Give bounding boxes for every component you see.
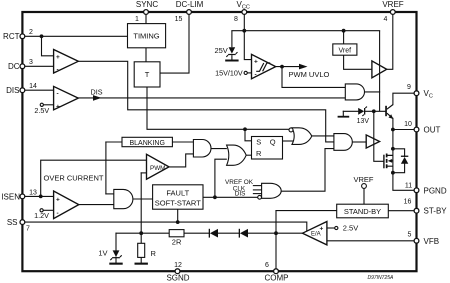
- wire AND3 output to AND2 bottom input: [281, 149, 334, 192]
- wire DIS net long line: [78, 97, 345, 99]
- svg-text:2: 2: [29, 29, 33, 36]
- svg-text:13: 13: [29, 189, 37, 196]
- wire Vcc rail: [232, 30, 380, 32]
- svg-text:8: 8: [234, 16, 238, 23]
- svg-text:-: -: [255, 71, 257, 78]
- pin 11 PGND: [414, 188, 419, 193]
- wire body diode branch bottom: [393, 164, 405, 173]
- wire Vcc pin drop: [243, 12, 245, 31]
- pin 12 SGND: [175, 269, 180, 274]
- pin 7 SS: [20, 220, 25, 225]
- svg-text:COMP: COMP: [265, 273, 289, 282]
- node 1.2V bubble at ISEN comparator: [40, 209, 43, 212]
- wire Vcc rail drop through buffer to base line: [379, 31, 381, 112]
- wire emitter drop: [392, 118, 394, 129]
- wire 2.5V stub to E/A: [327, 227, 335, 229]
- wire STAND-BY top to VREF bubble: [363, 188, 365, 204]
- wire SYNC drop: [145, 12, 147, 24]
- svg-text:1.2V: 1.2V: [34, 211, 49, 220]
- svg-text:DC: DC: [8, 62, 20, 71]
- wire 15V/10V stub to UVLO - input: [248, 72, 252, 74]
- wire overcurrent AND output to FAULT block: [133, 198, 153, 200]
- svg-text:15: 15: [175, 16, 183, 23]
- wire output rail to PGND: [393, 130, 417, 191]
- wire Vref box top: [343, 31, 345, 44]
- svg-text:16: 16: [404, 199, 412, 206]
- gate AND2 3-input: [334, 134, 352, 151]
- pin 10 OUT: [414, 127, 419, 132]
- svg-text:SOFT-START: SOFT-START: [155, 199, 201, 208]
- svg-text:PGND: PGND: [424, 186, 447, 195]
- svg-text:BLANKING: BLANKING: [129, 140, 164, 147]
- wire UVLO AND output: [365, 91, 380, 93]
- svg-text:7: 7: [26, 225, 30, 232]
- comparator DC (RCT/DC): [54, 50, 79, 74]
- svg-text:1: 1: [135, 16, 139, 23]
- wire RCT to TIMING: [23, 35, 128, 37]
- svg-text:-: -: [320, 239, 322, 246]
- comparator PWM: [147, 154, 170, 179]
- error amplifier E/A: [303, 222, 327, 245]
- diode D2: [239, 229, 240, 238]
- svg-text:DIS: DIS: [91, 88, 103, 97]
- svg-text:2.5V: 2.5V: [343, 224, 358, 233]
- svg-text:OVER CURRENT: OVER CURRENT: [44, 174, 104, 183]
- svg-text:11: 11: [405, 183, 412, 190]
- wire R resistor connections: [140, 233, 142, 243]
- wire 1V zener drop: [115, 233, 117, 250]
- svg-text:3: 3: [29, 59, 33, 66]
- svg-text:OUT: OUT: [424, 126, 441, 135]
- svg-text:PWM UVLO: PWM UVLO: [289, 70, 330, 79]
- wire SS line: [23, 222, 307, 233]
- svg-text:12: 12: [174, 262, 182, 269]
- ground R resistor: [135, 263, 148, 265]
- wire TIMING to T: [145, 48, 147, 62]
- svg-text:6: 6: [265, 262, 269, 269]
- wire 13V zener to ground: [343, 110, 358, 112]
- svg-text:VREF: VREF: [382, 0, 403, 9]
- node VREF bubble above STAND-BY: [362, 184, 367, 189]
- driver triangle for output stage: [366, 135, 379, 148]
- wire Vc pin to collector: [393, 93, 417, 104]
- gate AND overcurrent: [114, 189, 133, 208]
- wire FAULT output to AND3 DIS input: [203, 196, 258, 198]
- ground 13V zener: [338, 116, 350, 118]
- bubble OR3 inverted input: [289, 128, 293, 132]
- arrow DIS net: [93, 95, 102, 101]
- wire body diode branch top: [393, 149, 405, 157]
- svg-text:R: R: [256, 149, 262, 158]
- svg-text:VFB: VFB: [424, 237, 440, 246]
- pin 1 SYNC: [144, 10, 149, 15]
- junction dots: [40, 34, 44, 38]
- svg-text:1V: 1V: [98, 249, 107, 258]
- svg-text:-: -: [57, 210, 59, 217]
- svg-text:T: T: [145, 70, 150, 79]
- pin 9 Vc: [414, 91, 419, 96]
- wire AND2 output to driver: [353, 141, 367, 143]
- wire 1.2V stub: [43, 209, 53, 211]
- wire RCT branch to DC comparator + input: [42, 36, 54, 56]
- wire latch Q output to OR3: [283, 140, 295, 142]
- svg-text:+: +: [254, 59, 258, 66]
- wire BLANKING output to AND1: [172, 141, 193, 143]
- transistor M1 mosfet: [383, 155, 384, 169]
- svg-text:25V: 25V: [214, 46, 227, 55]
- diode body MOSFET: [401, 157, 408, 164]
- svg-text:D97IN725A: D97IN725A: [368, 275, 395, 281]
- svg-text:PWM: PWM: [150, 165, 165, 172]
- pin 3 DC: [20, 64, 25, 69]
- wire OR2 output to latch R: [245, 154, 252, 156]
- svg-text:ISEN: ISEN: [1, 192, 20, 201]
- block STAND-BY: [337, 204, 389, 218]
- wire AND1 output to OR2: [211, 148, 226, 150]
- resistor 2R: [169, 230, 184, 237]
- pin 5 VFB: [414, 238, 419, 243]
- block Vref: [333, 44, 357, 55]
- wire AND3 input stub VREF OK: [253, 185, 261, 187]
- gate OR2 to latch R: [227, 145, 247, 165]
- svg-text:SYNC: SYNC: [136, 0, 158, 9]
- wire E/A output line: [116, 232, 169, 234]
- zener 1V: [113, 250, 120, 257]
- node 15V/10V bubble at UVLO: [244, 71, 247, 74]
- wire FAULT branch to OR2: [215, 159, 226, 197]
- wire Vcc to UVLO + input: [244, 31, 251, 60]
- pin 6 COMP: [274, 269, 279, 274]
- svg-text:+: +: [56, 197, 60, 204]
- wire UVLO output with arrow: [276, 66, 300, 68]
- wire STAND-BY to ST-BY pin: [388, 210, 416, 212]
- svg-text:Q: Q: [270, 137, 276, 146]
- wire BLANKING input from overcurrent AND: [106, 193, 114, 195]
- comparator UVLO with hysteresis: [252, 54, 276, 78]
- block BLANKING: [122, 137, 172, 146]
- svg-text:4: 4: [384, 16, 388, 23]
- wire DIS pin to comparator: [23, 89, 54, 91]
- wire T clock output to OR3 bubble: [147, 87, 289, 129]
- wire VFB pin to E/A inverting input: [327, 240, 417, 242]
- svg-text:DC-LIM: DC-LIM: [176, 0, 204, 9]
- svg-text:14: 14: [29, 83, 37, 90]
- block TIMING: [128, 24, 166, 48]
- latch SR flip-flop: [252, 137, 283, 160]
- svg-text:Vref: Vref: [339, 47, 352, 54]
- arrow PWM UVLO: [299, 64, 308, 70]
- wire ISEN comparator output: [79, 204, 114, 206]
- svg-text:2R: 2R: [172, 238, 182, 247]
- svg-text:-: -: [57, 67, 59, 74]
- buffer Vref to pin 4: [372, 61, 387, 78]
- wire COMP vertical: [275, 211, 277, 272]
- gate AND UVLO enable: [345, 84, 364, 100]
- gate OR3 clock/Q: [292, 128, 312, 145]
- block T: [134, 62, 160, 87]
- svg-text:SS: SS: [7, 218, 18, 227]
- wire OUT pin: [393, 129, 417, 131]
- svg-text:S: S: [256, 137, 261, 146]
- gate AND3 VREF OK/CLK/DIS: [262, 183, 282, 198]
- wire AND3 input stub CLK: [253, 189, 261, 191]
- svg-text:+: +: [320, 226, 324, 233]
- svg-text:+: +: [56, 103, 60, 110]
- wire 13V zener to transistor base: [365, 110, 385, 112]
- node 2.5V bubble at DIS comparator: [40, 103, 43, 106]
- wire UVLO output to AND gate: [282, 67, 345, 88]
- wire Vref box to buffer input: [344, 55, 372, 69]
- wire DC comparator output to AND2 second input: [78, 61, 334, 142]
- wire STAND-BY left to COMP node: [276, 210, 337, 212]
- svg-text:FAULT: FAULT: [166, 188, 189, 197]
- svg-text:VCC: VCC: [237, 0, 250, 10]
- zener 25V: [229, 47, 236, 53]
- svg-text:2.5V: 2.5V: [34, 106, 49, 115]
- wire ISEN pin to comparator: [23, 195, 54, 197]
- comparator ISEN overcurrent: [54, 191, 79, 219]
- zener 13V: [358, 108, 364, 115]
- node 2.5V bubble at E/A: [335, 226, 338, 229]
- svg-text:STAND-BY: STAND-BY: [344, 207, 381, 216]
- pin 2 RCT: [20, 34, 25, 39]
- svg-text:DIS: DIS: [6, 86, 19, 95]
- pin 4 VREF: [390, 10, 395, 15]
- svg-text:VC: VC: [424, 89, 433, 100]
- svg-text:SGND: SGND: [166, 273, 189, 282]
- svg-text:10: 10: [404, 121, 412, 128]
- diode D1: [209, 229, 210, 238]
- svg-text:5: 5: [408, 231, 412, 238]
- svg-text:ST-BY: ST-BY: [424, 207, 448, 216]
- ground 1V zener: [109, 263, 122, 265]
- wire DC pin to comparator: [23, 65, 54, 67]
- svg-text:+: +: [56, 54, 60, 61]
- svg-text:13V: 13V: [357, 118, 370, 125]
- pin 15 DC-LIM: [187, 10, 192, 15]
- wire 2.5V stub to DIS comparator: [43, 104, 53, 106]
- comparator DIS: [54, 86, 79, 109]
- bubble AND3 DIS input: [258, 195, 262, 199]
- svg-text:TIMING: TIMING: [133, 32, 159, 41]
- svg-text:VREF: VREF: [353, 175, 373, 184]
- svg-text:9: 9: [407, 84, 411, 91]
- wire buffer output to VREF pin: [387, 12, 393, 69]
- pin 13 ISEN: [20, 194, 25, 199]
- svg-text:DIS: DIS: [235, 190, 246, 197]
- pin 14 DIS: [20, 88, 25, 93]
- svg-text:R: R: [151, 249, 157, 258]
- wire PWM comparator inverting input drop: [141, 172, 146, 174]
- wire PWM comparator output to AND1: [169, 154, 193, 167]
- wire DC-LIM to T: [160, 12, 189, 73]
- svg-text:-: -: [57, 91, 59, 98]
- svg-text:15V/10V: 15V/10V: [215, 69, 243, 78]
- wire AND3 input stub DIS: [253, 193, 261, 195]
- resistor R: [138, 243, 145, 257]
- wire ISEN branch to PWM comparator: [41, 160, 147, 196]
- block FAULT SOFT-START: [153, 185, 203, 209]
- svg-text:RCT: RCT: [3, 32, 20, 41]
- wire clock branch to latch S input: [245, 129, 252, 141]
- wire gate-drive vertical through driver: [374, 111, 384, 161]
- wire OR3 output to AND2 top input: [312, 135, 334, 137]
- transistor Q1 npn: [385, 106, 387, 116]
- gate AND1 blanking: [193, 140, 211, 158]
- pin 16 ST-BY: [414, 208, 419, 213]
- wire FAULT block to soft-start SS: [177, 209, 179, 222]
- pin 8 VCC: [242, 10, 247, 15]
